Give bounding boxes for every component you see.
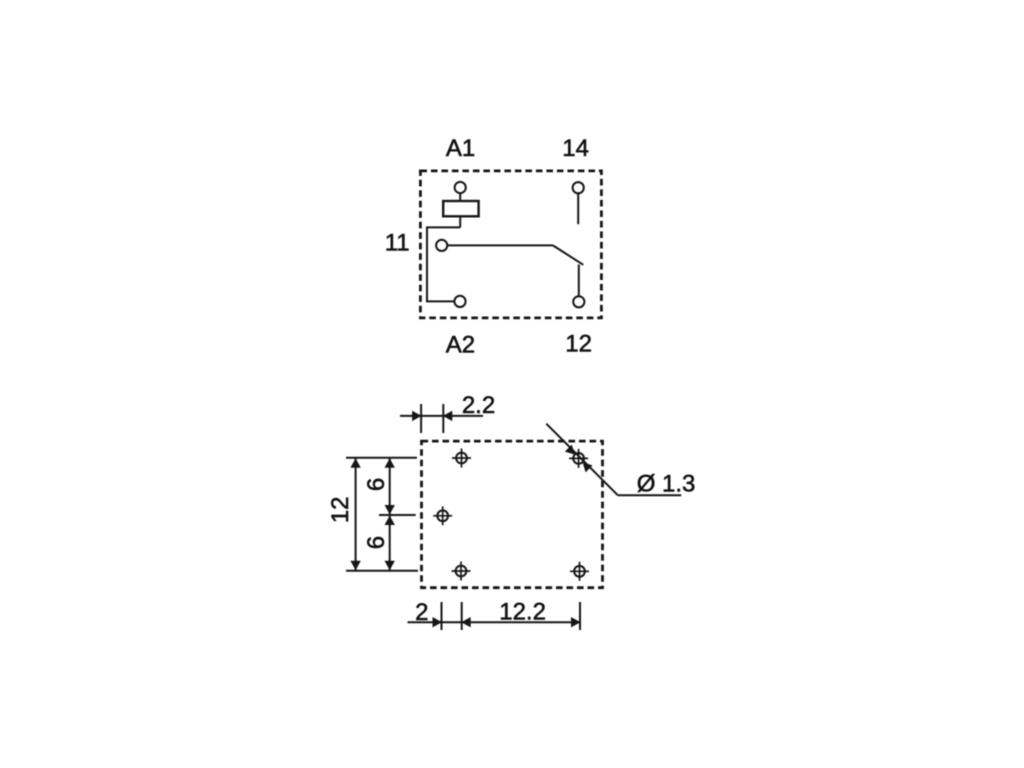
svg-text:12.2: 12.2	[499, 599, 546, 626]
svg-text:2.2: 2.2	[462, 392, 495, 419]
svg-text:12: 12	[327, 496, 354, 523]
svg-text:11: 11	[385, 230, 410, 257]
svg-text:12: 12	[565, 331, 592, 358]
svg-text:6: 6	[363, 536, 390, 549]
svg-text:6: 6	[363, 478, 390, 491]
svg-text:Ø 1.3: Ø 1.3	[637, 470, 696, 497]
svg-text:A1: A1	[446, 135, 475, 162]
svg-text:2: 2	[415, 599, 428, 626]
svg-text:14: 14	[562, 135, 589, 162]
svg-text:A2: A2	[446, 331, 475, 358]
